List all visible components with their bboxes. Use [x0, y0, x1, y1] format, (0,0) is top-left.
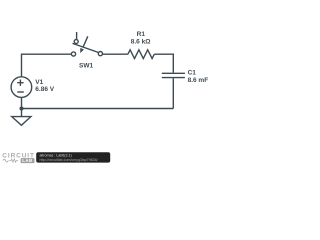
svg-text:altromas : Lab6(3.1): altromas : Lab6(3.1): [40, 154, 72, 158]
svg-text:C1: C1: [188, 70, 197, 77]
wire capacitor bottom down: [172, 78, 174, 108]
wire V1 bottom to ground: [21, 97, 23, 116]
ground: [12, 117, 31, 126]
svg-text:6.86 V: 6.86 V: [35, 86, 54, 93]
svg-text:SW1: SW1: [79, 63, 93, 70]
switch SW1 pivot circle: [74, 40, 78, 44]
switch SW1 stub: [76, 32, 78, 40]
switch SW1 arrowhead: [80, 48, 84, 53]
svg-text:8.6 mF: 8.6 mF: [188, 77, 209, 84]
resistor R1: [128, 50, 154, 59]
V1 plus sign: [17, 80, 23, 86]
wire resistor to capacitor top: [154, 54, 173, 72]
capacitor C1 plates: [162, 72, 185, 74]
switch SW1 arrow shaft: [83, 36, 88, 47]
svg-text:LAB: LAB: [22, 158, 33, 163]
switch SW1 lever: [73, 43, 99, 52]
watermark info box: [36, 152, 110, 162]
wire top-left: V1 top up and right to switch: [22, 54, 72, 77]
voltage source V1 circle: [11, 77, 32, 98]
switch SW1 left terminal: [71, 52, 75, 56]
bottom rail wire: [22, 108, 174, 110]
svg-text:http://circuitlab.com/cmyq3lsp: http://circuitlab.com/cmyq3lsp79634/: [40, 158, 98, 162]
junction node dot: [20, 107, 24, 111]
svg-text:R1: R1: [137, 31, 146, 38]
V1 minus sign: [17, 91, 24, 93]
wire switch to resistor: [103, 53, 128, 55]
watermark CircuitLab logo: [2, 153, 35, 164]
switch SW1 right terminal: [98, 52, 102, 56]
svg-text:8.6 kΩ: 8.6 kΩ: [131, 39, 151, 46]
